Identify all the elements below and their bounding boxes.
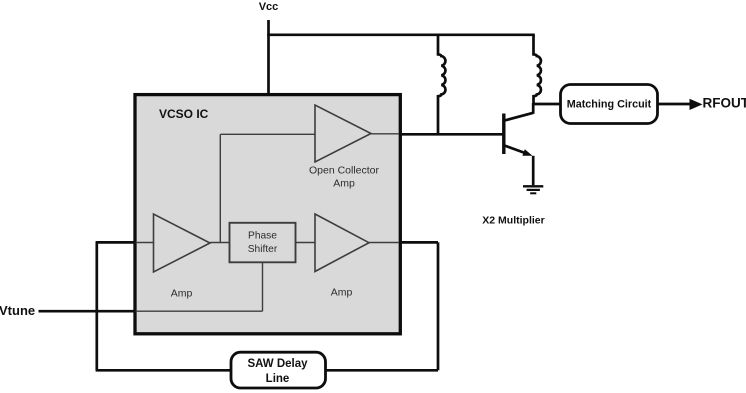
svg-text:Amp: Amp xyxy=(333,178,355,190)
svg-text:X2 Multiplier: X2 Multiplier xyxy=(482,215,544,227)
svg-text:Amp: Amp xyxy=(331,287,353,299)
svg-text:Line: Line xyxy=(266,373,290,385)
svg-text:Vtune: Vtune xyxy=(0,303,35,318)
svg-text:Open Collector: Open Collector xyxy=(309,165,380,177)
svg-text:Matching Circuit: Matching Circuit xyxy=(567,99,652,111)
svg-text:Vcc: Vcc xyxy=(259,1,279,13)
svg-text:Shifter: Shifter xyxy=(248,244,278,255)
svg-text:VCSO IC: VCSO IC xyxy=(159,107,209,121)
svg-text:Phase: Phase xyxy=(248,231,277,242)
svg-text:Amp: Amp xyxy=(171,288,193,300)
svg-text:SAW Delay: SAW Delay xyxy=(247,358,308,370)
svg-text:RFOUT: RFOUT xyxy=(703,96,746,111)
